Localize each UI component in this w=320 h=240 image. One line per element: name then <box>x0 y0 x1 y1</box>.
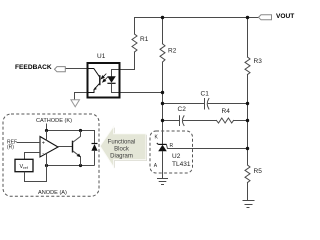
wire C1 line <box>163 103 205 105</box>
wire cathode rail <box>47 131 95 144</box>
wire FEEDBACK to U1 <box>66 68 88 70</box>
wire TL431 anode to ground <box>162 151 164 179</box>
resistor R3 <box>245 57 250 75</box>
svg-text:U2: U2 <box>172 153 181 160</box>
junction node U1 out <box>161 91 164 94</box>
capacitor C2 <box>180 116 217 126</box>
svg-text:CATHODE (K): CATHODE (K) <box>36 118 72 124</box>
functional block dashed box <box>3 114 99 196</box>
U2 dashed box <box>150 131 193 173</box>
TL431 ground <box>157 179 168 185</box>
wire R1 to U1 LED <box>112 52 135 76</box>
svg-text:R2: R2 <box>168 48 177 55</box>
U1 phototransistor <box>88 69 100 93</box>
wire R1 branch top <box>134 18 136 35</box>
wire R3 to R5 <box>247 75 249 166</box>
junction node C1 left <box>161 102 164 105</box>
junction node top R2 <box>161 16 164 19</box>
wire U1 emitter to ground <box>75 93 88 100</box>
junction node C1 right <box>246 102 249 105</box>
wire TL431 ref line <box>166 145 247 149</box>
node anode-opamp <box>45 164 48 167</box>
svg-text:R3: R3 <box>254 58 263 65</box>
wire U1 output rail <box>112 92 163 94</box>
wire anode rail <box>47 165 95 167</box>
svg-text:FEEDBACK: FEEDBACK <box>15 64 52 71</box>
resistor R2 <box>160 44 165 62</box>
svg-text:Vref: Vref <box>20 164 29 170</box>
svg-text:U1: U1 <box>97 53 106 60</box>
U1 light arrows <box>101 74 108 82</box>
junction node ref right <box>246 147 249 150</box>
junction node top R3 <box>246 16 249 19</box>
resistor R4 <box>217 118 234 123</box>
wire top rail <box>135 17 259 19</box>
svg-text:VOUT: VOUT <box>276 13 294 20</box>
wire REF input <box>17 142 41 144</box>
ground triangle under U1 <box>71 100 80 107</box>
U1 LED <box>107 76 116 92</box>
wire C2 line <box>163 120 180 122</box>
svg-text:R1: R1 <box>140 36 149 43</box>
wire inverting input to Vref <box>25 153 41 160</box>
wire opamp output to base <box>58 146 73 148</box>
resistor R5 <box>245 165 250 183</box>
port flag VOUT <box>259 15 272 20</box>
junction node C2 left <box>161 119 164 122</box>
svg-text:C1: C1 <box>201 91 210 98</box>
wire R5 to ground <box>247 183 249 201</box>
op-amp U3 <box>40 131 58 166</box>
capacitor C1 <box>205 99 248 110</box>
svg-text:ANODE (A): ANODE (A) <box>38 190 67 196</box>
svg-text:Diagram: Diagram <box>110 154 133 160</box>
svg-text:TL431: TL431 <box>172 161 191 168</box>
functional arrow shadow <box>101 127 147 168</box>
port flag FEEDBACK <box>55 67 66 72</box>
optocoupler U1 box <box>88 63 120 98</box>
svg-text:R4: R4 <box>222 108 231 115</box>
svg-text:+: + <box>42 140 45 146</box>
wire R2 branch top <box>162 18 164 44</box>
node cathode-opamp <box>45 129 48 132</box>
wire R4 to R3 rail <box>234 120 248 122</box>
svg-text:Block: Block <box>114 147 130 153</box>
svg-text:R5: R5 <box>254 168 263 175</box>
TL431 U2 symbol <box>157 143 167 151</box>
wire Vref return to anode <box>25 166 47 182</box>
functional arrow <box>100 126 146 167</box>
transistor Q1 <box>73 131 81 166</box>
svg-text:C2: C2 <box>178 106 187 113</box>
wire R3 branch top <box>247 17 249 57</box>
junction node R4 right <box>246 119 249 122</box>
node anode-emitter <box>79 164 82 167</box>
ground under R5 <box>243 201 255 208</box>
svg-text:-: - <box>42 151 44 157</box>
svg-text:R: R <box>170 143 174 149</box>
svg-text:(R): (R) <box>7 145 14 151</box>
wire R2 down to TL431 K <box>162 62 164 145</box>
wire cathode stub <box>46 124 48 131</box>
Vref box <box>15 159 33 171</box>
resistor R1 <box>132 34 137 52</box>
node cathode-collector <box>79 129 82 132</box>
block diode D <box>91 144 97 166</box>
svg-text:Functional: Functional <box>108 140 136 146</box>
